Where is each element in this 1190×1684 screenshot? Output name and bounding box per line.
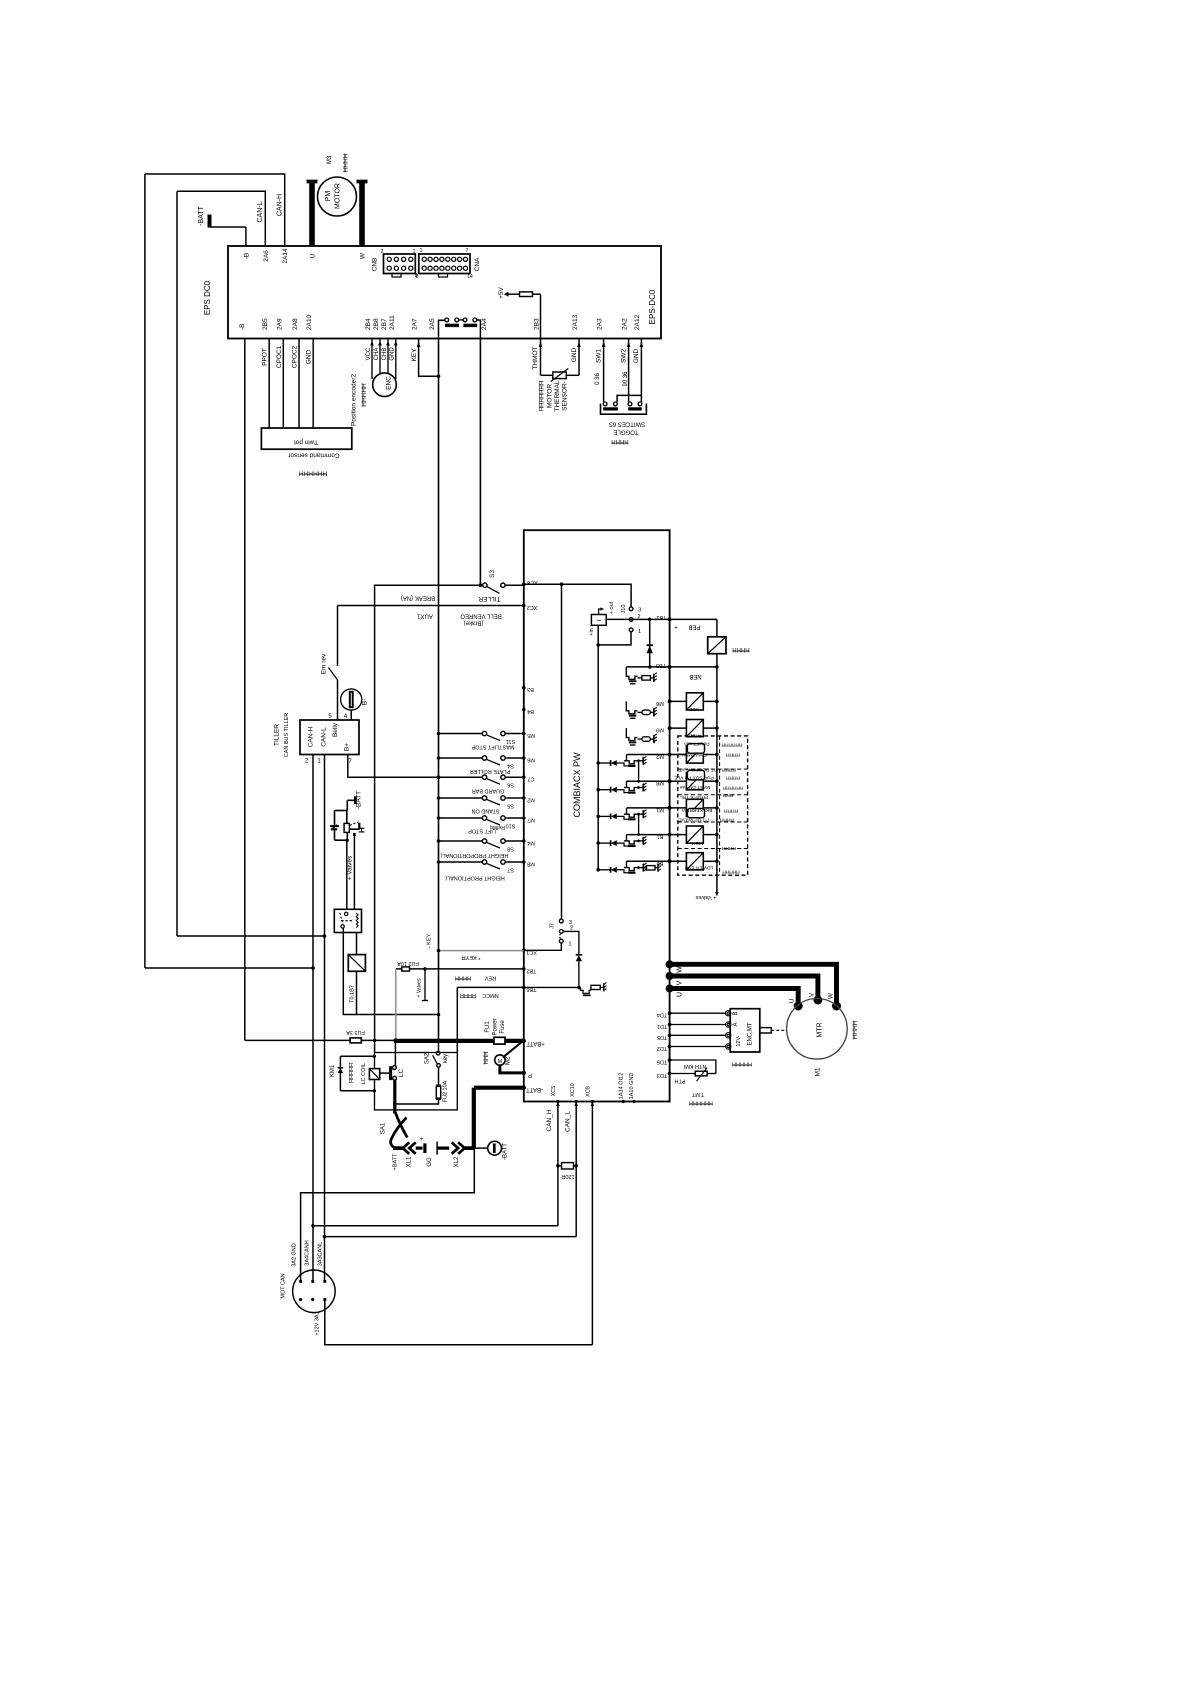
valve feed stub <box>423 967 427 971</box>
svg-text:MGH: MGH <box>691 840 703 846</box>
svg-text:AUX1: AUX1 <box>417 613 433 619</box>
svg-text:- KEY: - KEY <box>427 933 433 948</box>
svg-text:CPOC1: CPOC1 <box>276 345 283 368</box>
svg-text:1: 1 <box>413 249 416 255</box>
svg-text:FU1: FU1 <box>485 1021 491 1033</box>
svg-text:2A12: 2A12 <box>634 314 641 330</box>
svg-text:+ Valves: + Valves <box>417 978 423 997</box>
wire -B to battery bus <box>244 339 246 1041</box>
pin -BATT wire thick <box>522 1086 526 1090</box>
pin TB1 <box>668 617 672 621</box>
thermistor PTH <box>695 1071 707 1076</box>
wire +in bus vertical <box>597 645 599 870</box>
svg-text:2: 2 <box>381 249 384 255</box>
svg-text:S11: S11 <box>506 738 515 744</box>
svg-text:M9: M9 <box>656 727 664 733</box>
box Twin pot command sensor <box>261 428 351 449</box>
wire row B3 <box>627 860 670 862</box>
svg-text:U: U <box>677 992 684 997</box>
junction EPS CANL <box>323 934 327 938</box>
svg-text:SWITCES 6S: SWITCES 6S <box>609 421 645 427</box>
svg-text:TIT UP VALVE: TIT UP VALVE <box>678 817 709 823</box>
pin +BATT <box>522 1039 526 1043</box>
svg-text:1: 1 <box>420 248 423 254</box>
svg-text:M1: M1 <box>815 1067 822 1076</box>
connector CNA <box>419 254 470 274</box>
switch S7 row <box>437 860 441 864</box>
svg-text:2A5: 2A5 <box>429 318 436 330</box>
svg-text:PM: PM <box>325 191 332 202</box>
svg-text:2B3: 2B3 <box>534 318 541 330</box>
svg-text:BIG KERREIA: BIG KERREIA <box>681 807 712 813</box>
driver TB6 internal <box>524 986 579 988</box>
pin B3 <box>522 686 526 690</box>
svg-text:C7: C7 <box>527 776 534 782</box>
coil LC COIL box <box>369 1069 379 1080</box>
dashed partition <box>678 848 748 850</box>
switch S11 row <box>437 732 441 736</box>
wire to -BATT terminal circle <box>474 1147 489 1149</box>
horn relay contact <box>350 822 359 826</box>
svg-text:GG: GG <box>427 1157 433 1167</box>
svg-text:TIT DOWN VALVE: TIT DOWN VALVE <box>678 767 718 773</box>
valve overlay rounded row M1 <box>687 809 704 818</box>
svg-text:M2: M2 <box>527 797 535 803</box>
wire FU2 gray riser <box>395 969 397 1041</box>
encoder connector box ENC MT <box>730 1009 760 1052</box>
valve overlay rounded row M2 <box>687 744 704 754</box>
svg-text:XL1: XL1 <box>407 1156 413 1167</box>
svg-text:-BATT: -BATT <box>503 1143 509 1160</box>
dashed partition <box>678 768 748 770</box>
svg-text:Em rev: Em rev <box>321 653 328 674</box>
diode KM1 <box>338 1068 344 1073</box>
svg-text:PLATE ROLLER: PLATE ROLLER <box>470 768 511 774</box>
wire aux in to J10-1 <box>598 625 631 645</box>
pin M1 right <box>668 806 672 810</box>
svg-text:GND: GND <box>390 347 396 361</box>
svg-text:EPS DC0: EPS DC0 <box>203 280 212 315</box>
svg-text:PROP'K TRL: PROP'K TRL <box>680 794 708 800</box>
dashed partition <box>678 794 748 796</box>
svg-text:NTH KMI: NTH KMI <box>683 1063 706 1069</box>
svg-text:2A7: 2A7 <box>412 318 419 330</box>
svg-text:P: P <box>528 1071 532 1077</box>
svg-text:CHA: CHA <box>374 348 380 361</box>
svg-text:2A6: 2A6 <box>263 250 270 262</box>
svg-text:ĦĦĦĦ: ĦĦĦĦ <box>852 1020 859 1039</box>
driver B1 mosfet <box>596 841 600 845</box>
wire row M8 <box>627 780 670 782</box>
svg-text:W: W <box>677 966 684 973</box>
brake coil PEB box <box>708 637 726 654</box>
svg-text:Fuse: Fuse <box>500 1020 506 1034</box>
svg-text:S3: S3 <box>489 570 496 578</box>
switch S3 tiller <box>479 583 483 587</box>
pin M8 right <box>668 699 672 703</box>
svg-text:ĦĦĦ: ĦĦĦ <box>722 792 733 798</box>
switch S5 row <box>437 796 441 800</box>
pin P <box>522 1071 526 1075</box>
pin B4 <box>522 708 526 712</box>
svg-text:ĦĦĦĦĦĦ: ĦĦĦĦĦĦ <box>721 742 742 748</box>
svg-text:LC: LC <box>398 1069 405 1078</box>
wire valves bus vertical <box>716 667 718 892</box>
svg-text:HEIGHT PROPTIONAL(: HEIGHT PROPTIONAL( <box>445 875 505 881</box>
svg-text:LC COIL: LC COIL <box>361 1063 367 1084</box>
svg-text:REV: REV <box>485 974 497 980</box>
box TILLER CAN BUS <box>300 720 359 755</box>
svg-text:THMOT: THMOT <box>532 346 539 369</box>
svg-text:ĦĦĦĦ: ĦĦĦĦ <box>726 775 740 781</box>
svg-text:STAND ON: STAND ON <box>471 808 499 814</box>
svg-text:PTH: PTH <box>674 1078 685 1084</box>
pin XC6 wire inside <box>522 582 526 586</box>
svg-text:0 36: 0 36 <box>595 373 601 385</box>
motor M3 lead W thick <box>359 181 365 246</box>
svg-text:Belly: Belly <box>332 722 339 737</box>
svg-text:3A4CANH: 3A4CANH <box>305 1240 311 1265</box>
svg-text:XC8: XC8 <box>586 1086 592 1097</box>
svg-text:2B4: 2B4 <box>365 318 372 330</box>
svg-text:ĦĦĦĦ: ĦĦĦĦ <box>455 974 471 980</box>
svg-text:1: 1 <box>638 629 641 635</box>
svg-text:CAN_L: CAN_L <box>565 1111 572 1132</box>
svg-text:CAN-H: CAN-H <box>277 194 284 216</box>
key symbol B- <box>341 689 362 710</box>
svg-text:-B: -B <box>243 253 250 260</box>
wire row B1 <box>627 834 670 836</box>
pin TD5 thermistor <box>668 1058 672 1062</box>
wire XC8 <box>591 1102 593 1345</box>
svg-text:ĦĦĦĦ: ĦĦĦĦ <box>611 438 629 444</box>
valve coil box row B3 <box>670 860 687 862</box>
svg-text:XL2: XL2 <box>454 1156 460 1167</box>
svg-text:ĦĦĦĦĦĦ: ĦĦĦĦĦĦ <box>689 1100 713 1106</box>
wire aux out to TB1 <box>606 618 669 620</box>
driver M9 internal <box>626 728 637 740</box>
driver M8 internal <box>626 701 637 713</box>
svg-text:SA2: SA2 <box>425 1052 431 1064</box>
svg-text:ĦĦĦĦ: ĦĦĦĦ <box>732 646 750 652</box>
svg-text:M3: M3 <box>327 155 333 164</box>
wire KEY 2A7 <box>417 342 421 348</box>
svg-text:ĦĦĦĦĦ: ĦĦĦĦĦ <box>732 1061 752 1067</box>
wire XC10 CAN_L <box>575 1102 577 1237</box>
svg-text:Power: Power <box>493 1018 499 1035</box>
svg-text:14: 14 <box>467 274 473 280</box>
svg-text:(Brake): (Brake) <box>464 620 484 626</box>
wires to relay <box>346 840 348 910</box>
valve coil box row M1 <box>670 807 687 809</box>
svg-text:THERMAL: THERMAL <box>554 380 561 411</box>
wire BREAK NA <box>375 585 481 1052</box>
svg-text:ĦĦĦĦ: ĦĦĦĦ <box>720 817 734 823</box>
controller U2 EPS-DC0 outline <box>228 246 661 339</box>
svg-text:Twin pot: Twin pot <box>294 439 318 446</box>
svg-text:M8: M8 <box>656 700 664 706</box>
fuse FU1 power fuse <box>494 1037 505 1044</box>
svg-text:COMBIACX PW: COMBIACX PW <box>572 752 582 818</box>
svg-text:+: + <box>420 1136 424 1143</box>
svg-text:1: 1 <box>568 942 571 948</box>
pins MOT CAN bottom row <box>299 1298 302 1301</box>
svg-text:S6: S6 <box>507 782 514 788</box>
svg-text:Position encoder2: Position encoder2 <box>351 374 358 426</box>
switch Em rev <box>337 606 339 667</box>
svg-text:S10: S10 <box>506 823 516 829</box>
svg-text:3: 3 <box>638 608 641 614</box>
wire CANH long <box>313 1225 558 1227</box>
svg-text:T0.1B7: T0.1B7 <box>350 985 356 1003</box>
svg-text:+in: +in <box>589 628 595 636</box>
svg-text:B4: B4 <box>527 708 534 714</box>
svg-text:ĦĦĦĦ: ĦĦĦĦ <box>724 808 738 814</box>
wire TB5 row <box>626 666 669 668</box>
wire CAN-L vertical left <box>176 191 178 936</box>
battery terminal -BATT mid <box>354 796 357 804</box>
wire -B top pin <box>245 227 247 246</box>
svg-text:BELL VENREO: BELL VENREO <box>460 613 502 619</box>
svg-text:XC5: XC5 <box>551 1086 557 1097</box>
wire tiller CAN-L down <box>324 755 326 1282</box>
svg-text:ĦĦĦĦĦ: ĦĦĦĦĦ <box>722 869 740 875</box>
wire 2B3 THMOT +5V resistor <box>540 294 542 375</box>
svg-text:M8: M8 <box>527 861 535 867</box>
svg-text:J7: J7 <box>550 923 556 929</box>
svg-text:CAN-L: CAN-L <box>321 727 328 747</box>
svg-text:2A14: 2A14 <box>282 248 289 264</box>
svg-text:NEB: NEB <box>689 707 698 712</box>
wire J7-2 diode to TB6 <box>563 931 579 955</box>
svg-text:120R: 120R <box>561 1173 574 1179</box>
svg-text:+ Valves: + Valves <box>347 855 354 880</box>
wire FU2 bottom to LC <box>395 1098 439 1104</box>
wire CANL long <box>325 1236 577 1238</box>
svg-text:S5: S5 <box>507 803 514 809</box>
svg-text:MAST DN vae: MAST DN vae <box>679 784 710 790</box>
dashed partition vertical <box>719 736 721 875</box>
battery terminal -BATT circle <box>488 1141 502 1155</box>
toggle switch contacts 6S <box>603 402 607 406</box>
svg-text:XC6: XC6 <box>527 579 538 585</box>
svg-text:S7: S7 <box>507 867 514 873</box>
svg-text:CAN BUS TILLER: CAN BUS TILLER <box>284 713 290 758</box>
svg-text:RefMq: RefMq <box>490 824 505 830</box>
svg-text:2B8: 2B8 <box>373 318 380 330</box>
connector CNB <box>384 254 416 274</box>
svg-text:MTR: MTR <box>817 1022 824 1037</box>
controller U1 COMBIACX PW outline <box>524 530 670 1101</box>
wire NMCC TB6 <box>457 986 524 988</box>
aux converter box <box>591 615 606 626</box>
svg-text:2A10: 2A10 <box>306 314 313 330</box>
svg-text:12V-: 12V- <box>736 1035 742 1046</box>
contactor tip LC <box>394 1040 396 1066</box>
svg-text:A: A <box>733 1022 739 1026</box>
svg-text:TD2: TD2 <box>657 1045 667 1051</box>
svg-text:M6: M6 <box>527 757 535 763</box>
traction motor M1 MTR circle <box>787 999 848 1060</box>
switch block 2A5-2A4 inside EPS <box>439 320 445 338</box>
svg-text:W: W <box>360 252 367 259</box>
svg-text:SW2: SW2 <box>621 349 628 363</box>
coil NE9 box <box>670 727 687 729</box>
switch S10 row <box>437 816 441 820</box>
svg-text:ĦĦĦĦ: ĦĦĦĦ <box>343 153 350 172</box>
fuse FU2 vertical <box>438 1067 440 1086</box>
svg-text:S4: S4 <box>507 763 514 769</box>
pump motor M2 <box>504 1040 523 1056</box>
svg-text:FrvMAMBLLZ: FrvMAMBLLZ <box>677 752 707 758</box>
pin M2 right <box>668 753 672 757</box>
svg-text:90 36: 90 36 <box>623 371 629 387</box>
dashed valve group box <box>678 736 748 875</box>
wire bus 2A5 B+ KEY vertical <box>438 339 440 1041</box>
svg-text:CNA: CNA <box>474 257 481 271</box>
svg-text:MASTLIFT STOP: MASTLIFT STOP <box>471 744 514 750</box>
svg-text:FU3 3A: FU3 3A <box>346 1029 365 1035</box>
connector J7 <box>559 934 562 939</box>
svg-text:+BATT: +BATT <box>526 1040 545 1046</box>
coil NE8 box <box>670 700 687 702</box>
svg-text:-BATT: -BATT <box>356 791 363 809</box>
key switch SA2 <box>438 1040 440 1051</box>
svg-text:S8: S8 <box>507 846 514 852</box>
svg-text:3A3CANL: 3A3CANL <box>318 1242 324 1266</box>
wire tiller B+ to bus <box>348 755 483 778</box>
svg-text:ĦĦĦĦĦĦĦ: ĦĦĦĦĦĦĦ <box>540 380 546 411</box>
toggle switch 6S wires SW1 SW2 GND <box>603 339 605 402</box>
svg-text:1A14 OI12: 1A14 OI12 <box>619 1073 625 1099</box>
valve coil box row M8 <box>670 780 687 782</box>
driver link rows 1-2 <box>638 761 640 781</box>
svg-text:ĦĦĦĦ: ĦĦĦĦ <box>722 766 736 772</box>
svg-text:V: V <box>809 992 816 997</box>
svg-text:TD5: TD5 <box>657 1034 667 1040</box>
svg-text:SENSOR-: SENSOR- <box>562 381 569 411</box>
sensor Twin pot command sensor wires <box>268 339 270 429</box>
battery bus horizontal <box>245 1039 350 1041</box>
svg-text:2A13: 2A13 <box>572 314 579 330</box>
svg-text:+12V 3A1: +12V 3A1 <box>315 1311 321 1335</box>
svg-text:+BATT: +BATT <box>393 1153 399 1171</box>
pin B1 right <box>668 833 672 837</box>
svg-text:CAN-H: CAN-H <box>308 726 315 747</box>
svg-text:-B: -B <box>239 324 246 331</box>
valve coil box row M2 <box>670 754 687 756</box>
connector XL1 <box>403 1142 409 1153</box>
svg-text:W: W <box>828 992 835 999</box>
wire tiller CAN-H down <box>312 755 314 1282</box>
thick wire to XL1 <box>393 1146 403 1150</box>
svg-text:ĦĦĦĦĦĦ: ĦĦĦĦĦĦ <box>722 785 743 791</box>
svg-text:GND: GND <box>571 347 578 362</box>
svg-text:2: 2 <box>570 926 573 932</box>
connector XL2 <box>452 1142 458 1153</box>
svg-text:2A4: 2A4 <box>481 318 488 330</box>
pin U thick <box>666 985 674 993</box>
svg-text:H: H <box>356 827 366 833</box>
pin TB5 <box>668 665 672 669</box>
driver link rows 3-4 <box>638 814 640 834</box>
svg-text:+ Valves: + Valves <box>695 894 716 900</box>
svg-text:B: B <box>733 1011 739 1015</box>
svg-text:VCC: VCC <box>366 347 372 360</box>
connector MOT CAN circle <box>293 1270 336 1313</box>
wire relay coil to BDI <box>356 933 358 955</box>
wire XC6 to J7 vertical <box>561 584 563 919</box>
switch S6 row <box>437 775 441 779</box>
thermistor motor thermal sensor <box>553 372 567 379</box>
svg-text:CHB: CHB <box>382 348 388 361</box>
svg-text:M2: M2 <box>506 1056 512 1065</box>
svg-text:GND: GND <box>306 349 313 364</box>
fuse FU2 10A horizontal <box>402 967 410 971</box>
svg-text:PEB: PEB <box>688 624 700 630</box>
svg-text:3A2 GND: 3A2 GND <box>292 1243 298 1267</box>
motor M3 lead U thick <box>309 181 315 246</box>
wire CAN-H from 2A14 <box>145 174 285 246</box>
svg-text:Command sensor: Command sensor <box>288 452 340 459</box>
driver M8 mosfet <box>596 788 600 792</box>
svg-text:ĦĦĦĦĦĦ: ĦĦĦĦĦĦ <box>299 470 327 477</box>
wire REV TB2 <box>396 968 524 970</box>
svg-text:FwLIFT vao: FwLIFT vao <box>684 741 710 747</box>
driver TB5 internal <box>626 667 637 679</box>
junction EPS CANH <box>311 966 315 970</box>
svg-text:1A10 GND: 1A10 GND <box>629 1073 635 1100</box>
svg-text:TB2: TB2 <box>526 968 536 974</box>
driver B3 resistor <box>647 866 656 870</box>
pin W thick <box>666 960 674 968</box>
svg-text:ENC: ENC <box>386 376 393 390</box>
wire 2A4 to S3 <box>479 339 481 586</box>
svg-text:KM1: KM1 <box>330 1064 336 1077</box>
svg-text:TILLER: TILLER <box>274 724 281 746</box>
svg-text:MOTOR: MOTOR <box>335 183 342 209</box>
svg-text:V: V <box>677 980 684 985</box>
svg-text:2B5: 2B5 <box>262 318 269 330</box>
svg-text:8: 8 <box>416 274 419 280</box>
svg-text:∼: ∼ <box>596 617 602 624</box>
valve overlay rounded row M8 <box>687 770 704 780</box>
svg-text:2A8: 2A8 <box>292 318 299 330</box>
encoder ENC circle position encoder2 <box>373 373 397 397</box>
svg-text:+: + <box>674 625 678 632</box>
motor M3 PM MOTOR circle <box>318 177 357 216</box>
driver M2 mosfet <box>596 761 600 765</box>
svg-text:key: key <box>443 1054 449 1063</box>
pin V thick <box>666 972 674 980</box>
svg-text:CAN-L: CAN-L <box>257 201 264 222</box>
svg-text:ĦĦĦĦĦ: ĦĦĦĦĦ <box>361 383 368 407</box>
svg-text:XC2: XC2 <box>527 604 538 610</box>
svg-text:GUARD BAR: GUARD BAR <box>472 788 505 794</box>
pin B3 right <box>668 859 672 863</box>
svg-text:FU2 10A: FU2 10A <box>397 960 419 966</box>
svg-text:TD3: TD3 <box>657 1072 667 1078</box>
svg-text:-BATT: -BATT <box>526 1086 543 1092</box>
driver M1 mosfet <box>596 815 600 819</box>
svg-text:CNB: CNB <box>372 258 379 272</box>
wire GND 2A13 <box>578 339 580 376</box>
svg-text:CPOC2: CPOC2 <box>292 345 299 368</box>
svg-text:T.MT: T.MT <box>691 1091 704 1097</box>
svg-text:MOTOR: MOTOR <box>547 384 554 408</box>
wire row M1 <box>627 807 670 809</box>
svg-text:ĦĦĦ: ĦĦĦ <box>484 1051 490 1065</box>
